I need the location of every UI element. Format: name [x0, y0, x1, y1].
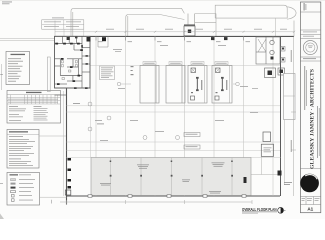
canopy / roof outline top — [71, 5, 296, 36]
leader from commodities box to plan — [39, 135, 66, 137]
storage commodities box — [7, 130, 39, 169]
left margin dimension line — [1, 64, 3, 90]
dock boxes below utility block — [265, 68, 276, 78]
site lines at left — [0, 39, 55, 41]
column dots in gray area — [110, 161, 233, 177]
dark door/wall accents — [55, 43, 88, 89]
rack module 2 — [166, 66, 185, 104]
info cells row — [305, 197, 307, 205]
horizontal reference lines — [67, 66, 281, 158]
grid ticks below north wall — [96, 37, 273, 41]
right dimension string — [291, 36, 296, 196]
top cell tiny text — [304, 3, 307, 11]
roof hatch squares on north wall — [211, 37, 215, 40]
room boxes right side — [263, 132, 271, 142]
door schedule table — [7, 91, 61, 124]
exist bldg dimension band top-left — [42, 18, 84, 37]
keynote tags right-center — [184, 133, 200, 150]
title block outer border — [300, 2, 320, 213]
architect seal stamp (circle) — [303, 41, 317, 55]
door marks on south wall — [88, 195, 246, 197]
dimension text left — [73, 103, 104, 124]
gray storage area — [91, 158, 251, 196]
bottom-left corner scan smudge — [0, 214, 4, 220]
sheet corner note — [2, 2, 12, 5]
building east wall — [280, 36, 282, 196]
office lower annex walls — [55, 88, 91, 95]
north arrow circle — [278, 207, 284, 213]
svg-text:GLEASSKY JAMNEY · ARCHITECTS: GLEASSKY JAMNEY · ARCHITECTS — [309, 69, 315, 169]
grid bubbles — [88, 82, 239, 139]
black wall squares right of office — [102, 37, 106, 41]
exterior stub bottom-left — [65, 190, 71, 195]
small dock box on east wall bottom — [244, 177, 247, 183]
fixtures circles — [270, 40, 274, 44]
dock door marks on west wall — [68, 158, 72, 189]
svg-text:A1: A1 — [307, 206, 313, 211]
svg-text:OVERALL FLOOR PLAN: OVERALL FLOOR PLAN — [242, 207, 277, 212]
solid black logo circle — [300, 174, 319, 193]
title block dividers — [300, 12, 320, 205]
logo highlight arc — [305, 175, 317, 180]
OFFICE BLOCK — [55, 36, 91, 89]
labels in gray area — [100, 163, 225, 194]
small cell dashes — [303, 31, 317, 34]
notes area — [9, 106, 48, 121]
warehouse west wall — [66, 44, 68, 205]
building south wall — [66, 195, 280, 197]
rack module 1 — [140, 66, 159, 104]
narrow ramp rect left of office — [47, 57, 50, 92]
rack module 4 — [212, 66, 232, 104]
chimney / silo — [184, 14, 195, 36]
keynote text block in warehouse — [100, 66, 115, 80]
note box extension line — [54, 21, 56, 37]
canopy support line — [275, 18, 277, 36]
small address text column (left of name) — [304, 66, 307, 110]
vertical grid lines — [96, 36, 273, 196]
title: OVERALL FLOOR PLAN — [242, 207, 286, 214]
building north wall — [55, 35, 295, 37]
stair diagonal box — [258, 39, 266, 52]
vestibule dark mark at canopy corner — [67, 37, 70, 40]
symbols legend box — [7, 173, 40, 206]
NE utility room block — [256, 37, 280, 64]
misc annotation specks — [95, 45, 258, 141]
top dimension string — [55, 31, 294, 33]
equip legend box — [6, 52, 30, 85]
east exterior pad — [284, 74, 296, 120]
column label specks below north wall — [98, 40, 250, 43]
rack module 3 — [188, 66, 207, 104]
bottom dimension string — [60, 200, 252, 204]
small project text column (right of name) — [317, 106, 320, 158]
toilet fixtures — [62, 61, 78, 80]
